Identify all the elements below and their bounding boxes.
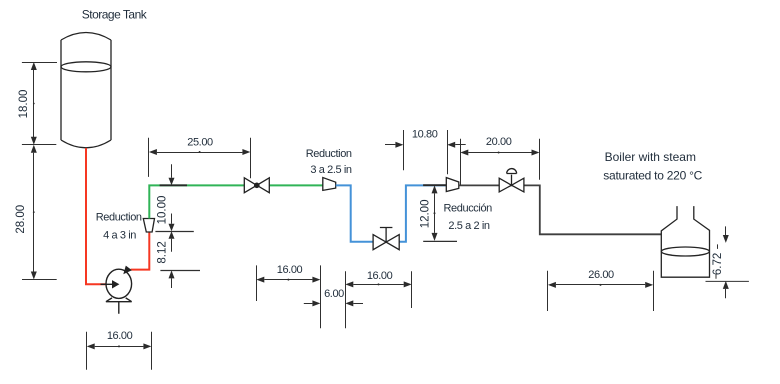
dim 8.12 <box>160 214 200 289</box>
reducer R1 4a3 <box>143 219 154 233</box>
dim 12.00 <box>423 185 457 241</box>
svg-text:Storage Tank: Storage Tank <box>82 8 148 22</box>
svg-text:10.00: 10.00 <box>156 196 168 225</box>
dim 6.72 <box>706 226 749 298</box>
svg-text:16.00: 16.00 <box>277 264 303 276</box>
dim 16.00 second <box>346 271 412 328</box>
valve V3 globe <box>499 178 524 192</box>
reducer R2 3a2.5 <box>323 178 336 191</box>
svg-text:6.72: 6.72 <box>712 253 724 275</box>
svg-text:Reduction: Reduction <box>306 148 352 160</box>
wire: discharge pipe red <box>131 232 150 270</box>
dim 16.00 mid <box>257 265 321 328</box>
svg-text:saturated to 220 °C: saturated to 220 °C <box>603 169 702 183</box>
svg-text:Reducción: Reducción <box>444 203 493 215</box>
dim 10.80 <box>385 130 466 174</box>
svg-text:3 a 2.5 in: 3 a 2.5 in <box>310 164 352 176</box>
storage tank T1 <box>61 33 111 148</box>
dim 16.00 pump <box>87 332 152 370</box>
reducer R3 2.5a2 <box>446 178 459 192</box>
svg-text:25.00: 25.00 <box>187 136 213 148</box>
boiler water level <box>661 247 709 256</box>
svg-text:12.00: 12.00 <box>420 200 432 229</box>
svg-text:Reduction: Reduction <box>96 211 142 223</box>
svg-text:26.00: 26.00 <box>588 269 614 281</box>
svg-text:10.80: 10.80 <box>412 128 438 140</box>
wire: black pipe 2in <box>459 185 662 234</box>
svg-text:Boiler with steam: Boiler with steam <box>605 150 696 164</box>
svg-text:6.00: 6.00 <box>324 288 344 300</box>
svg-text:2.5 a 2 in: 2.5 a 2 in <box>448 220 490 232</box>
valve V1 ball <box>244 178 269 193</box>
wire: green pipe 3in <box>149 185 322 218</box>
dim 6.00 <box>304 303 363 305</box>
pump outlet arrow <box>123 266 132 275</box>
dim 25.00 <box>149 138 251 179</box>
svg-text:20.00: 20.00 <box>486 136 512 148</box>
wire: blue pipe 2.5in <box>336 185 447 241</box>
svg-text:4 a 3 in: 4 a 3 in <box>103 230 136 242</box>
pump P1 <box>106 269 132 314</box>
tank water level <box>61 62 111 72</box>
dim 10.00 <box>155 164 193 252</box>
wire: suction pipe red <box>86 148 106 284</box>
pump flow arrow <box>101 283 113 285</box>
boiler B1 <box>661 206 709 277</box>
dim 28.00 <box>22 153 57 280</box>
svg-text:16.00: 16.00 <box>107 330 133 342</box>
dim 26.00 <box>548 271 654 311</box>
dim 20.00 <box>461 139 540 186</box>
svg-text:28.00: 28.00 <box>15 205 27 234</box>
svg-text:16.00: 16.00 <box>367 270 393 282</box>
dim 18.00 <box>22 63 57 145</box>
svg-text:18.00: 18.00 <box>18 90 30 119</box>
svg-text:8.12: 8.12 <box>157 241 169 263</box>
valve V2 gate with stem <box>373 235 399 250</box>
